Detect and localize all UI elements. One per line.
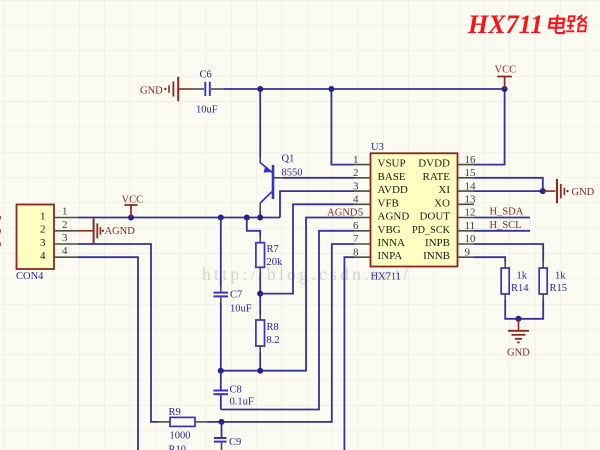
svg-text:VFB: VFB (378, 197, 399, 209)
svg-text:16: 16 (465, 154, 477, 166)
junction bottom GND node (516, 316, 522, 322)
junction VCC rail at Q1 collector (257, 215, 263, 221)
wire AVDD pin3 (280, 191, 354, 217)
svg-text:1k: 1k (517, 271, 528, 282)
svg-text:C7: C7 (230, 290, 242, 301)
svg-text:3: 3 (353, 180, 359, 192)
svg-text:9: 9 (465, 246, 471, 258)
power ground GND right (543, 179, 595, 203)
svg-text:2: 2 (40, 224, 46, 236)
svg-text:U3: U3 (371, 142, 384, 153)
wire RATE pin15 (474, 178, 543, 191)
svg-text:AGND: AGND (105, 226, 136, 237)
svg-text:1: 1 (353, 154, 359, 166)
svg-text:VSUP: VSUP (378, 158, 406, 170)
svg-text:DVDD: DVDD (418, 158, 450, 170)
connector CON4 (16, 205, 78, 283)
svg-text:R7: R7 (267, 244, 279, 255)
svg-text:INNB: INNB (423, 250, 450, 262)
svg-text:1k: 1k (555, 271, 566, 282)
wire CON4 pin3 down (78, 244, 158, 422)
svg-text:4: 4 (353, 194, 359, 206)
svg-text:10uF: 10uF (196, 105, 218, 116)
wire AGND pin5 (221, 218, 354, 371)
watermark http://blog.csdn.net/ (202, 264, 411, 284)
svg-text:0.1uF: 0.1uF (230, 397, 254, 408)
junction VCC rail at port (128, 215, 134, 221)
wire DVDD pin16 to VCC (474, 89, 505, 165)
junction XI GND node (540, 188, 546, 194)
svg-text:C6: C6 (200, 70, 212, 81)
wire VBG pin6 (221, 231, 354, 410)
wire Q1 emitter riser (259, 89, 261, 163)
svg-text:VCC: VCC (495, 65, 517, 76)
svg-text:7: 7 (353, 233, 359, 245)
svg-text:H_SCL: H_SCL (490, 220, 522, 231)
svg-text:RATE: RATE (423, 171, 451, 183)
svg-text:1000: 1000 (170, 431, 191, 442)
wire Q1 base to pin2 (283, 177, 354, 179)
resistor R7 20k (256, 237, 283, 274)
svg-text:Q1: Q1 (282, 154, 295, 165)
junction top rail at VCC (502, 86, 508, 92)
title HX711 circuit (467, 10, 588, 39)
svg-text:GND: GND (572, 187, 595, 198)
wire H_SDA pin12 (474, 217, 530, 219)
svg-text:2: 2 (353, 167, 359, 179)
net label H_SCL (490, 220, 522, 231)
wire top VCC rail (224, 88, 505, 90)
svg-text:8550: 8550 (282, 168, 303, 179)
svg-text:R15: R15 (550, 283, 568, 294)
resistor R10 label clipped (169, 445, 187, 450)
junction AGND rail at C7 (218, 368, 224, 374)
wire R7 jog (247, 218, 260, 238)
svg-text:HX711: HX711 (467, 10, 543, 39)
earth ground GND bottom (507, 319, 530, 359)
svg-text:AGND: AGND (327, 208, 358, 219)
junction top rail at VSUP (328, 86, 334, 92)
svg-text:R14: R14 (511, 283, 529, 294)
junction C9 node (219, 419, 225, 425)
wire VCC horizontal rail (78, 217, 280, 219)
svg-text:INPA: INPA (378, 250, 403, 262)
svg-text:PD_SCK: PD_SCK (412, 224, 450, 236)
svg-text:VBG: VBG (378, 224, 401, 236)
resistor R8 8.2 (256, 315, 280, 352)
wire VSUP pin1 riser (331, 89, 354, 165)
svg-text:11: 11 (465, 220, 476, 232)
svg-text:10uF: 10uF (230, 304, 252, 315)
edge tick nets (0, 216, 1, 246)
wire INNA pin7 (207, 244, 354, 422)
power port VCC top (495, 65, 517, 90)
svg-text:6: 6 (353, 220, 359, 232)
IC U3 HX711 (353, 142, 476, 283)
wire R7 to R8 (259, 274, 261, 315)
resistor R15 1k (539, 262, 567, 300)
junction top rail at Q1 (257, 86, 263, 92)
svg-text:INNA: INNA (378, 237, 406, 249)
svg-text:2: 2 (62, 219, 68, 231)
svg-text:R8: R8 (267, 322, 279, 333)
junction VFB node (257, 291, 263, 297)
svg-text:13: 13 (465, 194, 477, 206)
capacitor C7 (214, 218, 252, 371)
svg-text:8: 8 (353, 246, 359, 258)
svg-text:C9: C9 (229, 437, 241, 448)
svg-text:GND: GND (140, 86, 163, 97)
svg-text:AGND: AGND (378, 211, 410, 223)
wire R8 bottom (259, 352, 261, 371)
svg-text:HX711: HX711 (371, 272, 402, 283)
svg-text:1: 1 (40, 210, 46, 222)
svg-text:20k: 20k (267, 257, 284, 268)
svg-text:VCC: VCC (122, 195, 144, 206)
power ground AGND (78, 219, 135, 243)
svg-text:XO: XO (434, 197, 450, 209)
svg-text:GND: GND (507, 348, 530, 359)
svg-text:C8: C8 (230, 385, 242, 396)
capacitor C8 (214, 371, 254, 410)
svg-text:INPB: INPB (425, 237, 450, 249)
svg-text:5: 5 (358, 207, 364, 219)
capacitor C6 (191, 70, 224, 116)
net label AGND pin5 (327, 208, 358, 219)
wire INNB pin9 to R14 (474, 257, 505, 262)
svg-text:H_SDA: H_SDA (490, 207, 524, 218)
svg-text:CON4: CON4 (16, 271, 44, 282)
power port VCC left (122, 195, 144, 218)
power ground GND top-left (140, 77, 191, 101)
svg-text:AVDD: AVDD (378, 184, 408, 196)
junction VCC rail at C7 (218, 215, 224, 221)
svg-text:BASE: BASE (378, 171, 406, 183)
wire R14 R15 bottoms (505, 300, 543, 319)
svg-text:3: 3 (40, 237, 46, 249)
wire H_SCL pin11 (474, 230, 530, 232)
wire INPB pin10 to R15 (474, 244, 543, 262)
wire XI pin14 (474, 190, 543, 192)
svg-text:12: 12 (465, 207, 476, 219)
resistor R14 1k (501, 262, 529, 300)
svg-text:4: 4 (40, 250, 46, 262)
resistor R9 1000 (158, 407, 207, 442)
transistor Q1 8550 (260, 154, 302, 218)
svg-text:R10: R10 (169, 445, 187, 450)
junction AGND rail at R8 (257, 368, 263, 374)
wire CON4 pin4 down (78, 257, 138, 450)
wire INPA pin8 (344, 257, 354, 450)
junction VCC rail at R7 (244, 215, 250, 221)
svg-text:XI: XI (438, 184, 450, 196)
svg-text:1: 1 (62, 206, 68, 218)
svg-text:DOUT: DOUT (419, 211, 450, 223)
capacitor C9 (214, 422, 241, 450)
svg-text:8.2: 8.2 (267, 335, 280, 346)
wire VFB pin4 (260, 204, 354, 293)
net label H_SDA (490, 207, 524, 218)
svg-text:4: 4 (62, 245, 68, 257)
svg-text:R9: R9 (169, 407, 181, 418)
svg-text:3: 3 (62, 232, 68, 244)
